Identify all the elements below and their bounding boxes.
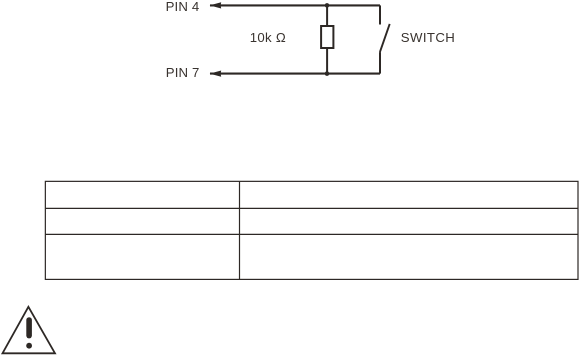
wire: resistor bottom to bottom junction [326, 48, 328, 74]
warning exclamation dot [26, 343, 32, 349]
node: bottom junction [325, 71, 330, 76]
table row line 2 [45, 233, 578, 235]
switch blade [380, 24, 390, 52]
arrowhead on PIN 4 wire [210, 2, 222, 8]
table row line 1 [45, 207, 578, 209]
svg-text:SWITCH: SWITCH [401, 30, 455, 45]
wire: right branch lower vertical [379, 52, 381, 74]
svg-text:10k Ω: 10k Ω [250, 30, 286, 45]
table outer border [45, 181, 578, 279]
warning exclamation bar [26, 317, 32, 338]
resistor R (10k) body [321, 26, 333, 48]
table column line [239, 181, 241, 279]
wire: PIN 4 top horizontal [210, 4, 380, 6]
wire: junction to resistor top [326, 5, 328, 26]
wire: PIN 7 bottom horizontal [210, 73, 380, 75]
arrowhead on PIN 7 wire [210, 71, 222, 77]
wire: right branch upper vertical [379, 5, 381, 24]
node: top junction [325, 3, 330, 8]
svg-text:PIN 7: PIN 7 [166, 65, 200, 80]
warning triangle outline [3, 307, 56, 354]
svg-text:PIN 4: PIN 4 [166, 0, 200, 14]
